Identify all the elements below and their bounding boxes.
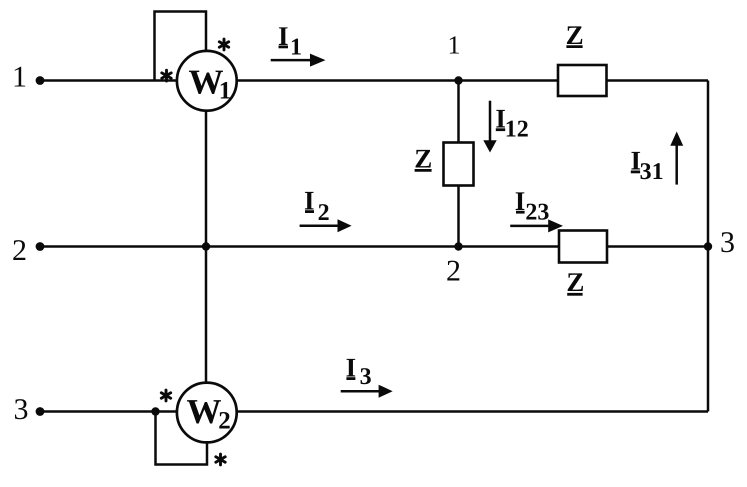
polarity star W1 voltage side xyxy=(219,39,228,50)
label current I23 xyxy=(515,186,550,226)
arrow I31 xyxy=(670,132,683,185)
svg-text:23: 23 xyxy=(525,199,549,225)
label Z top xyxy=(566,20,584,50)
label current I12 xyxy=(495,103,528,142)
impedance Z between 3 and 1 (top) xyxy=(558,65,607,96)
impedance Z between 1 and 2 (vertical) xyxy=(444,143,474,186)
wire phase 1 left segment xyxy=(40,79,177,82)
wire phase 1 right segment xyxy=(606,79,708,82)
svg-text:3: 3 xyxy=(14,393,29,426)
node neutral junction on phase 2 xyxy=(202,242,210,250)
svg-text:Z: Z xyxy=(566,267,584,297)
polarity star W1 line side xyxy=(162,70,171,81)
node 3 junction xyxy=(704,242,712,250)
wire Z12 bottom to node 2 xyxy=(457,186,460,247)
polarity star W2 line side xyxy=(161,390,170,401)
svg-text:2: 2 xyxy=(446,255,461,288)
impedance Z between 2 and 3 (bottom) xyxy=(559,231,607,263)
svg-text:1: 1 xyxy=(448,31,461,60)
wire phase 2 right segment xyxy=(607,245,709,248)
svg-text:1: 1 xyxy=(219,78,232,105)
label current I3 xyxy=(346,353,372,390)
label current I2 xyxy=(304,185,330,226)
wattmeter W1 xyxy=(177,51,237,111)
arrow I23 xyxy=(510,219,563,232)
svg-text:2: 2 xyxy=(12,234,27,267)
label current I1 xyxy=(278,21,302,61)
node terminal phase 2 xyxy=(36,242,45,251)
svg-text:W: W xyxy=(187,392,222,431)
wire phase 3 left segment xyxy=(40,410,177,413)
wire W1 voltage-coil loop xyxy=(155,12,207,81)
arrow I1 xyxy=(271,54,326,67)
svg-text:12: 12 xyxy=(505,117,529,143)
node W2 voltage tap junction xyxy=(151,407,159,415)
node 1 junction xyxy=(454,76,462,84)
label Z vertical impedance xyxy=(414,144,432,174)
svg-text:1: 1 xyxy=(12,61,27,94)
svg-text:31: 31 xyxy=(640,159,664,185)
svg-text:3: 3 xyxy=(360,364,372,390)
node terminal phase 1 xyxy=(36,76,45,85)
wire phase 2 xyxy=(40,245,560,248)
arrow I3 xyxy=(341,385,393,398)
wire phase 1 middle segment xyxy=(237,79,559,82)
label current I31 xyxy=(631,146,664,186)
wattmeter W2 xyxy=(177,383,237,443)
wire W2 voltage-coil loop xyxy=(156,412,208,465)
label Z bottom xyxy=(566,267,584,297)
arrow I2 xyxy=(300,219,352,232)
svg-text:1: 1 xyxy=(290,35,302,61)
svg-text:2: 2 xyxy=(318,200,330,226)
wire node 1 to Z12 top xyxy=(457,81,460,143)
node terminal phase 3 xyxy=(36,407,45,416)
wire right vertical branch xyxy=(707,81,710,412)
node 2 junction xyxy=(454,242,462,250)
svg-text:2: 2 xyxy=(218,408,231,435)
polarity star W2 voltage side xyxy=(216,454,225,465)
arrow I12 xyxy=(483,101,496,153)
svg-text:3: 3 xyxy=(720,226,735,259)
wire neutral vertical W1 to W2 xyxy=(205,111,208,382)
wire phase 3 right segment xyxy=(237,410,708,413)
